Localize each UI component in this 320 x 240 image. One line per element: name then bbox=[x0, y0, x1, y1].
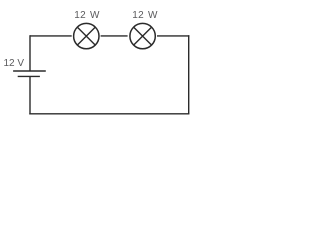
svg-text:12 V: 12 V bbox=[4, 58, 25, 69]
wire: bottom rail (horizontal) bbox=[29, 113, 189, 115]
wire: right rail (vertical) bbox=[188, 35, 190, 114]
battery B1: short negative plate bbox=[18, 75, 40, 77]
svg-text:12 W: 12 W bbox=[74, 10, 100, 21]
lamp L2: cross stroke (X) bbox=[134, 27, 152, 45]
lamp L1: cross stroke (X) bbox=[77, 27, 95, 45]
wire: left rail lower segment (battery - plate down to bottom corner) bbox=[29, 76, 31, 114]
svg-text:12 W: 12 W bbox=[132, 10, 158, 21]
wire: segment between lamp L1 and lamp L2 bbox=[101, 35, 128, 37]
lamp L1: circle body bbox=[74, 23, 99, 48]
battery B1: long positive plate bbox=[13, 70, 46, 72]
lamp L2: circle body bbox=[130, 23, 155, 48]
wire: top-left segment from left rail to lamp L1 bbox=[30, 35, 72, 37]
wire: left rail upper segment (top corner down to battery + plate) bbox=[29, 35, 31, 71]
wire: top-right segment from lamp L2 to right rail bbox=[157, 35, 189, 37]
